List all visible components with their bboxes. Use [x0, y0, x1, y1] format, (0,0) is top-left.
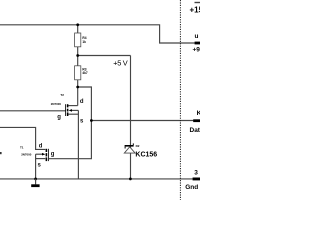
terminal pad Gnd: [193, 178, 200, 181]
svg-text:+9 V: +9 V: [193, 47, 201, 54]
svg-text:4k7: 4k7: [82, 71, 88, 75]
svg-text:T2: T2: [60, 93, 64, 97]
resistor R3: [75, 66, 81, 80]
junction dot top rail: [76, 23, 79, 26]
wire T2 source stub: [68, 113, 78, 115]
svg-text:d: d: [80, 99, 84, 105]
wire data line: [91, 120, 200, 122]
wire zener vertical: [130, 56, 132, 179]
resistor R4: [75, 33, 81, 47]
dotted separator line: [179, 0, 181, 200]
svg-text:u: u: [195, 33, 199, 40]
svg-text:1k: 1k: [82, 40, 86, 44]
zener diode D2 cathode bar: [125, 145, 134, 147]
svg-text:Data: Data: [190, 127, 201, 134]
wire +15V stub top right: [195, 2, 201, 4]
svg-text:2N7000: 2N7000: [21, 153, 32, 157]
wire T2 gate from left: [0, 110, 66, 112]
wire T2 source to ground: [77, 110, 79, 178]
transistor T2 channel segments: [67, 104, 69, 107]
wire T2 body tail: [72, 109, 79, 111]
svg-text:3: 3: [194, 170, 198, 177]
zener D2 right tick: [133, 143, 134, 145]
wire T1 body tail: [36, 153, 42, 155]
wire resistor chain upper (rail to R4): [77, 25, 79, 33]
svg-text:s: s: [80, 118, 84, 124]
zener D2 left tick: [125, 147, 126, 149]
svg-text:g: g: [51, 151, 55, 157]
wire T1 source stub: [36, 158, 46, 160]
wire R4 to R3 through +5V tap: [77, 47, 79, 66]
wire T2 drain stub: [68, 105, 77, 107]
svg-text:+15 V: +15 V: [190, 5, 201, 14]
transistor T1 channel segments: [46, 149, 48, 152]
wire T1 drain feed from left: [0, 127, 45, 149]
svg-text:K: K: [197, 110, 200, 117]
terminal pad +9V: [195, 42, 200, 45]
svg-text:d: d: [39, 144, 43, 150]
svg-text:s: s: [38, 163, 42, 169]
transistor T1 body arrow: [42, 153, 45, 156]
wire R3 bottom to T2 drain stub: [77, 80, 79, 106]
wire +5V feed to zener: [78, 55, 131, 57]
terminal pad Data: [193, 119, 200, 122]
wire node link (R3 bottom to data/T1 gate): [49, 87, 92, 159]
wire bottom ground rail: [0, 178, 200, 180]
junction dot zener at ground: [129, 178, 132, 181]
transistor T1 gate bar: [47, 149, 50, 161]
svg-text:g: g: [57, 114, 61, 120]
left edge text fragment: [0, 152, 2, 154]
junction dot T1 source at ground: [34, 178, 37, 181]
wire top +15V rail: [0, 25, 200, 43]
svg-text:KC156: KC156: [135, 151, 157, 158]
svg-text:2N7000: 2N7000: [51, 102, 62, 106]
svg-text:D2: D2: [136, 144, 140, 148]
svg-text:T1: T1: [20, 146, 24, 150]
transistor T2 gate bar: [64, 104, 67, 116]
zener D2 triangle: [124, 147, 135, 153]
wire T1 source to ground: [35, 154, 37, 179]
junction dot +5V tap: [76, 54, 79, 57]
transistor T2 body arrow: [69, 109, 72, 112]
svg-text:Gnd: Gnd: [185, 184, 198, 191]
junction dot data node: [90, 119, 93, 122]
ground symbol: [35, 179, 37, 185]
junction dot R3 bottom node: [76, 86, 79, 89]
svg-text:+5 V: +5 V: [113, 59, 128, 68]
